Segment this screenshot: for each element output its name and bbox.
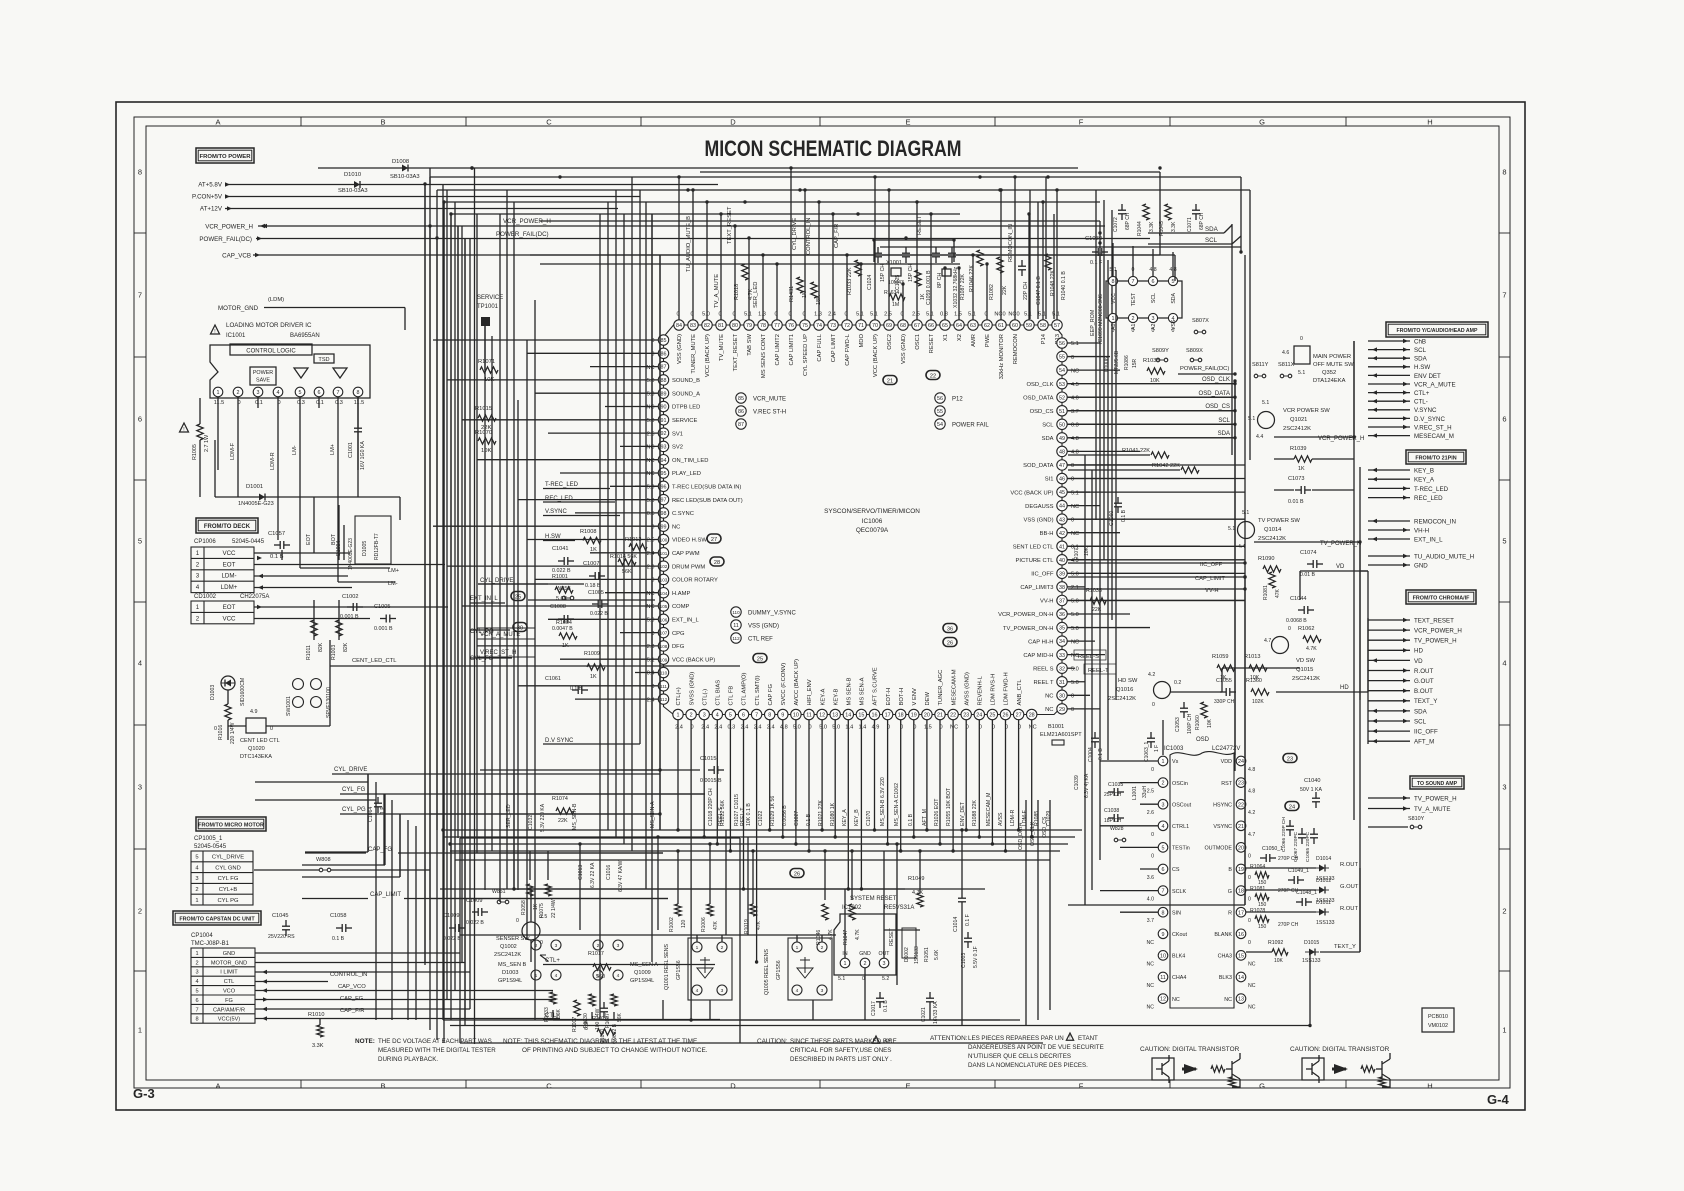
wire drop pin 1: [677, 720, 679, 830]
wire sensor gnd: [553, 1019, 1020, 1021]
resistor R1060v: [1201, 702, 1207, 718]
svg-text:1SS133: 1SS133: [1316, 920, 1335, 926]
opto sensor Q1001: [688, 938, 732, 1000]
capacitor C1064: [374, 802, 382, 804]
svg-text:23: 23: [963, 713, 969, 719]
svg-text:NC: NC: [1071, 368, 1079, 374]
svg-text:4.2: 4.2: [1148, 672, 1155, 678]
svg-text:24: 24: [976, 713, 982, 719]
svg-text:21: 21: [887, 378, 893, 384]
transistor Q1002: [522, 922, 540, 940]
svg-text:6: 6: [1502, 415, 1506, 424]
wire stub pin 98: [575, 512, 658, 514]
svg-text:C1072: C1072: [1113, 217, 1119, 232]
pin 75 CYL SPEED UP: [800, 320, 810, 330]
svg-text:CYL_FG: CYL_FG: [342, 787, 366, 793]
svg-text:1: 1: [1162, 759, 1165, 765]
svg-text:C1039: C1039: [1074, 775, 1080, 790]
wire stub pin 106: [548, 618, 658, 620]
svg-text:13: 13: [832, 713, 838, 719]
svg-text:C1049_1: C1049_1: [1288, 868, 1309, 874]
svg-text:AT+5.8V: AT+5.8V: [198, 182, 223, 189]
svg-text:GP1S94L: GP1S94L: [630, 978, 654, 984]
svg-text:AVCC (BACK UP): AVCC (BACK UP): [794, 659, 800, 706]
svg-text:N'UTILISER QUE CELLS DECRITES: N'UTILISER QUE CELLS DECRITES: [968, 1053, 1071, 1060]
pin 92 SV1: [658, 428, 668, 438]
svg-text:14: 14: [1238, 975, 1244, 981]
svg-text:VSS (GND): VSS (GND): [677, 334, 683, 364]
wire to pin 79: [748, 238, 750, 320]
svg-text:51: 51: [1059, 409, 1065, 415]
svg-text:MS_SEN-B: MS_SEN-B: [572, 803, 578, 830]
svg-text:81: 81: [718, 323, 724, 329]
svg-text:2.5: 2.5: [647, 538, 655, 544]
svg-text:CAP_F/R: CAP_F/R: [834, 224, 840, 248]
svg-text:12: 12: [1160, 997, 1166, 1003]
svg-text:MOTOR_GND: MOTOR_GND: [211, 960, 247, 966]
svg-text:0.5: 0.5: [647, 511, 655, 517]
svg-text:10K: 10K: [1207, 718, 1213, 728]
pin 96 T-REC LED(SUB DATA IN): [658, 481, 668, 491]
svg-text:4: 4: [196, 584, 200, 591]
svg-text:1K: 1K: [562, 643, 569, 649]
connector label FROM/TO Y/C/AUDIO/HEAD AMP: [1386, 322, 1488, 337]
svg-text:13: 13: [1238, 997, 1244, 1003]
svg-text:AFT_M: AFT_M: [922, 809, 928, 826]
pin 11 HIFI_ENV: [804, 709, 814, 719]
svg-text:LDM-R: LDM-R: [270, 452, 276, 470]
svg-text:62: 62: [984, 323, 990, 329]
wire bus bot5: [440, 888, 985, 890]
connector label FROM/TO POWER: [196, 148, 254, 163]
svg-text:1: 1: [1112, 316, 1115, 322]
wire rstub pin 54: [1067, 369, 1120, 371]
svg-text:R1060: R1060: [1195, 715, 1201, 730]
svg-text:LDM-F: LDM-F: [230, 442, 236, 460]
svg-text:5.0: 5.0: [1071, 626, 1079, 632]
svg-text:111: 111: [660, 684, 667, 689]
svg-text:VCC (BACK UP): VCC (BACK UP): [672, 657, 715, 663]
svg-text:LM-: LM-: [292, 445, 298, 455]
wire to pin 75: [804, 190, 806, 320]
pin 106 EXT_IN_L: [658, 614, 668, 624]
svg-text:C1008: C1008: [550, 604, 566, 610]
svg-text:VCC: VCC: [222, 615, 236, 622]
svg-text:VD SW: VD SW: [1296, 658, 1316, 664]
svg-text:1: 1: [138, 1026, 142, 1035]
connector block CHROMA rows: [1368, 619, 1410, 621]
wire rlong y559: [1067, 559, 1245, 561]
pin 16 AFT S.CURVE: [869, 709, 879, 719]
wire drop pin 12: [821, 720, 823, 830]
pin 98 C.SYNC: [658, 508, 668, 518]
svg-text:TAB SW: TAB SW: [747, 333, 753, 355]
wire rstub pin 55: [1067, 356, 1110, 358]
pin 88 SOUND_B: [658, 375, 668, 385]
svg-text:VCO: VCO: [223, 989, 236, 995]
svg-text:5.0: 5.0: [832, 725, 840, 731]
svg-text:GP1S56: GP1S56: [676, 960, 682, 980]
wire LM+: [337, 408, 339, 520]
connector block SOUND rows: [1368, 797, 1410, 799]
wire rstub pin 47: [1067, 464, 1160, 466]
svg-text:C1071: C1071: [1187, 217, 1193, 232]
svg-text:FROM/TO DECK: FROM/TO DECK: [204, 524, 251, 530]
svg-text:W808: W808: [316, 857, 331, 863]
svg-text:54: 54: [937, 422, 943, 428]
pin 80 TEXT_RESET: [730, 320, 740, 330]
svg-text:R.OUT: R.OUT: [1340, 862, 1358, 868]
svg-text:CONTROL_IN: CONTROL_IN: [330, 972, 367, 978]
pin 87 pin: [658, 361, 668, 371]
svg-text:IIC_OFF: IIC_OFF: [1031, 572, 1054, 578]
svg-text:R1360: R1360: [1246, 678, 1262, 684]
svg-text:SERVICE: SERVICE: [672, 418, 697, 424]
svg-text:PLAY_LED: PLAY_LED: [672, 471, 701, 477]
wire left long drop3: [446, 190, 448, 999]
wire to pin 63: [972, 255, 974, 320]
svg-text:OSD_DATA: OSD_DATA: [1199, 391, 1230, 397]
svg-text:SVCC (F.CONV): SVCC (F.CONV): [781, 663, 787, 706]
svg-text:RE5VS31A: RE5VS31A: [884, 905, 914, 911]
svg-text:R1010: R1010: [308, 1012, 324, 1018]
svg-text:2: 2: [821, 945, 824, 951]
svg-text:40: 40: [1059, 558, 1065, 564]
wire vleft x646: [645, 202, 647, 889]
svg-text:77: 77: [774, 323, 780, 329]
svg-text:8: 8: [357, 390, 360, 396]
svg-text:CAP FWD-L: CAP FWD-L: [845, 333, 851, 366]
svg-text:AMR: AMR: [971, 334, 977, 347]
svg-text:63: 63: [970, 323, 976, 329]
pin 40 PICTURE CTL: [1057, 555, 1067, 565]
svg-text:VD: VD: [1414, 658, 1423, 665]
svg-text:5: 5: [1502, 537, 1506, 546]
hex 26 node: [790, 869, 804, 878]
svg-text:26: 26: [1003, 713, 1009, 719]
svg-text:C1045: C1045: [272, 913, 288, 919]
wire stair x416: [415, 826, 417, 1020]
svg-text:HD: HD: [1340, 685, 1349, 691]
svg-text:C1055: C1055: [1216, 678, 1232, 684]
svg-text:2SC2412K: 2SC2412K: [494, 952, 521, 958]
svg-text:C1073: C1073: [1288, 476, 1304, 482]
svg-text:OSD_DATA: OSD_DATA: [1018, 822, 1024, 850]
svg-text:110: 110: [732, 610, 740, 615]
wire text_y rail: [1359, 700, 1361, 952]
node 86 V.REC ST-H: [736, 406, 746, 416]
diode D1005: [355, 516, 391, 564]
svg-text:OSD_CLK: OSD_CLK: [1026, 382, 1053, 388]
svg-text:VSS (GND): VSS (GND): [901, 334, 907, 364]
svg-text:C1013: C1013: [578, 865, 584, 880]
svg-text:0.0015 B: 0.0015 B: [700, 778, 722, 784]
svg-text:1M: 1M: [892, 302, 899, 308]
crystal X1001: [891, 268, 901, 276]
svg-text:D1001: D1001: [246, 484, 263, 490]
pin 6 CTL AMP(O): [738, 709, 748, 719]
pin 91 SERVICE: [658, 415, 668, 425]
pin 73 CAP LIMIT: [828, 320, 838, 330]
wire vrail0: [1234, 381, 1236, 771]
svg-text:VSYNC: VSYNC: [1213, 824, 1232, 830]
svg-text:NC: NC: [1029, 725, 1037, 731]
svg-text:IC1099 M2NC08-9N6: IC1099 M2NC08-9N6: [1098, 294, 1104, 344]
svg-text:NC0: NC0: [1008, 312, 1019, 318]
svg-text:4.7: 4.7: [1248, 832, 1255, 838]
svg-text:R: R: [1228, 910, 1232, 916]
svg-text:58: 58: [1040, 323, 1046, 329]
svg-text:82: 82: [704, 323, 710, 329]
pin 8 CAP FG: [765, 709, 775, 719]
svg-text:CKout: CKout: [1172, 932, 1187, 938]
svg-text:2SC2412K: 2SC2412K: [1108, 696, 1136, 702]
wire vtop x1038: [1037, 202, 1039, 319]
svg-text:VCC (BACK UP): VCC (BACK UP): [873, 334, 879, 377]
svg-text:SAVE: SAVE: [256, 378, 270, 384]
svg-text:3: 3: [257, 390, 260, 396]
svg-text:0: 0: [1172, 328, 1175, 334]
pin 104 H.AMP: [658, 588, 668, 598]
svg-text:2.4: 2.4: [647, 697, 655, 703]
resistor R1045: [1165, 204, 1171, 220]
wire bus top7: [540, 263, 960, 265]
svg-text:31: 31: [1059, 680, 1065, 686]
svg-text:C1040: C1040: [1304, 778, 1320, 784]
svg-text:HD SW: HD SW: [1118, 678, 1138, 684]
svg-text:CS: CS: [1172, 867, 1180, 873]
wire blh0: [480, 769, 660, 771]
svg-text:8: 8: [768, 713, 771, 719]
svg-text:NC: NC: [1045, 694, 1053, 700]
pin 17 EOT-H: [882, 709, 892, 719]
svg-text:16: 16: [872, 713, 878, 719]
svg-text:ChB: ChB: [1414, 338, 1426, 345]
svg-text:30: 30: [1059, 693, 1065, 699]
wire vleft x600: [599, 214, 601, 1020]
svg-text:E: E: [905, 118, 910, 127]
svg-text:0.1 F: 0.1 F: [1090, 260, 1103, 266]
svg-text:5.0: 5.0: [1071, 666, 1079, 672]
svg-text:EOT-H: EOT-H: [886, 688, 892, 706]
svg-text:REEL T: REEL T: [1034, 680, 1054, 686]
svg-text:G-3: G-3: [133, 1086, 155, 1101]
svg-text:POWER FAIL: POWER FAIL: [952, 423, 989, 429]
svg-text:32: 32: [1059, 666, 1065, 672]
svg-text:S809Y: S809Y: [1152, 348, 1169, 354]
wire vbusM2: [534, 300, 536, 1020]
wire stub pin 94: [477, 459, 658, 461]
svg-text:19: 19: [1238, 867, 1244, 873]
svg-text:HD: HD: [1414, 648, 1423, 655]
wire stub pin 104: [605, 592, 658, 594]
wire to pin 60: [1014, 177, 1016, 320]
svg-text:R1055 10K BOT: R1055 10K BOT: [946, 787, 952, 826]
svg-text:NC: NC: [1071, 639, 1079, 645]
svg-text:42: 42: [1059, 531, 1065, 537]
svg-text:20: 20: [924, 713, 930, 719]
wire LDM-R: [277, 408, 279, 540]
svg-text:FROM/TO MICRO MOTOR: FROM/TO MICRO MOTOR: [198, 822, 264, 828]
svg-text:R1058: R1058: [521, 900, 527, 915]
svg-text:R1046 22K: R1046 22K: [969, 265, 975, 292]
wire left long drop1: [476, 214, 478, 853]
svg-text:89: 89: [661, 391, 667, 397]
wire drop pin 17: [887, 720, 889, 844]
wire stub pin 100: [527, 539, 658, 541]
svg-text:0: 0: [1132, 328, 1135, 334]
node 112 CTL REF: [731, 633, 741, 643]
svg-text:21: 21: [937, 713, 943, 719]
svg-text:D1006: D1006: [1104, 357, 1110, 372]
wire to pin 59: [1028, 214, 1030, 320]
svg-text:DANS LA NOMENCLATURE DES PIECE: DANS LA NOMENCLATURE DES PIECES.: [968, 1062, 1088, 1069]
svg-text:92: 92: [661, 431, 667, 437]
svg-text:0.1 B: 0.1 B: [332, 936, 345, 942]
svg-text:X1032 32.768kHz: X1032 32.768kHz: [953, 266, 959, 308]
svg-text:2.1: 2.1: [1071, 585, 1079, 591]
svg-text:R1082: R1082: [989, 284, 995, 300]
svg-text:6: 6: [1152, 279, 1155, 285]
wire rstub pin 56: [1067, 342, 1100, 344]
transistor Q1020: [246, 718, 266, 733]
svg-text:CTL: CTL: [224, 979, 235, 985]
node 24 hex: [1285, 802, 1299, 811]
svg-text:CYL_DRIVE: CYL_DRIVE: [334, 767, 367, 773]
svg-text:LOADING MOTOR DRIVER IC: LOADING MOTOR DRIVER IC: [226, 322, 312, 329]
svg-text:C1050_1: C1050_1: [1262, 846, 1283, 852]
svg-text:4.8: 4.8: [1248, 767, 1255, 773]
svg-text:0.01 B: 0.01 B: [1288, 499, 1304, 505]
svg-text:0.1 B: 0.1 B: [883, 1000, 889, 1012]
capacitor C1069: [1018, 265, 1026, 267]
svg-text:0: 0: [1248, 918, 1251, 924]
pin 105 COMP: [658, 601, 668, 611]
pin 21 TUNER_AGC: [935, 709, 945, 719]
svg-text:2.3: 2.3: [647, 644, 655, 650]
resistor R1044: [1143, 204, 1149, 220]
svg-text:D1015: D1015: [1304, 940, 1319, 946]
wire vrail4: [1095, 190, 1097, 520]
svg-text:8: 8: [1502, 168, 1506, 177]
svg-text:POWER_FAIL(DC): POWER_FAIL(DC): [1180, 366, 1229, 372]
pin 29 NC: [1057, 704, 1067, 714]
svg-text:DTPB LED: DTPB LED: [672, 405, 700, 411]
capacitor C1014: [958, 897, 966, 899]
svg-text:11.5: 11.5: [214, 400, 224, 406]
pin 63 AMR: [968, 320, 978, 330]
svg-text:93: 93: [661, 445, 667, 451]
svg-text:3: 3: [1152, 316, 1155, 322]
svg-text:T-REC LED(SUB DATA IN): T-REC LED(SUB DATA IN): [672, 485, 741, 491]
svg-text:5.1: 5.1: [1242, 510, 1249, 516]
svg-text:0.4: 0.4: [647, 671, 655, 677]
pin 90 DTPB LED: [658, 401, 668, 411]
svg-text:26: 26: [947, 640, 953, 646]
svg-text:C1005: C1005: [374, 604, 390, 610]
pin 86 pin: [658, 348, 668, 358]
svg-text:S807X: S807X: [1192, 318, 1209, 324]
svg-text:D1005: D1005: [362, 541, 368, 556]
svg-text:R1431: R1431: [789, 286, 795, 302]
IC IC1099 EEPROM: [1106, 281, 1182, 318]
svg-text:2.0: 2.0: [647, 564, 655, 570]
svg-text:DFG: DFG: [672, 644, 685, 650]
svg-text:FROM/TO Y/C/AUDIO/HEAD AMP: FROM/TO Y/C/AUDIO/HEAD AMP: [1397, 328, 1478, 334]
resistor R1014: [618, 559, 636, 565]
svg-text:1SS133: 1SS133: [914, 946, 920, 964]
wire vmid x485: [484, 326, 486, 890]
wire capstan rows: [255, 952, 460, 954]
svg-text:C1014: C1014: [953, 917, 959, 932]
svg-text:V.SYNC: V.SYNC: [545, 509, 567, 515]
wire rstub pin 30: [1067, 694, 1090, 696]
node 36: [943, 624, 957, 633]
pin 77 CAP LIMIT2: [772, 320, 782, 330]
svg-text:2.5: 2.5: [647, 431, 655, 437]
svg-text:85: 85: [661, 338, 667, 344]
svg-text:106: 106: [660, 617, 668, 622]
svg-text:2.4: 2.4: [714, 725, 722, 731]
pin 24 REVENH-L: [974, 709, 984, 719]
svg-text:CAP_F/R: CAP_F/R: [340, 1008, 364, 1014]
wire stub pin 99: [433, 525, 658, 527]
connector block 21PIN rows2: [1368, 520, 1410, 522]
svg-text:C1041: C1041: [552, 546, 568, 552]
svg-text:5.0: 5.0: [1071, 599, 1079, 605]
svg-text:SID1600CM: SID1600CM: [240, 678, 246, 706]
svg-text:DANGEREUSES AN POINT DE VUE SE: DANGEREUSES AN POINT DE VUE SECURITE: [968, 1044, 1104, 1051]
svg-text:TUNER_AGC: TUNER_AGC: [938, 670, 944, 706]
svg-text:X1: X1: [943, 334, 949, 341]
svg-text:6.3V 47 KA/W: 6.3V 47 KA/W: [618, 860, 624, 892]
svg-text:CTRL1: CTRL1: [1172, 824, 1189, 830]
wire drop pin 20: [926, 720, 928, 830]
svg-text:43: 43: [1059, 517, 1065, 523]
svg-text:0.001 B: 0.001 B: [340, 614, 359, 620]
svg-text:1.4: 1.4: [845, 725, 853, 731]
svg-text:0: 0: [1152, 328, 1155, 334]
svg-text:SCL: SCL: [1205, 237, 1218, 244]
svg-text:NC: NC: [646, 405, 654, 411]
svg-text:GP1S56: GP1S56: [776, 960, 782, 980]
wire deck rows: [254, 552, 350, 554]
wire vbus L1: [436, 190, 438, 830]
wire drop pin 6: [743, 720, 745, 889]
wire osdstub 2: [1140, 803, 1158, 805]
svg-text:NC: NC: [646, 604, 654, 610]
wire LDM-F: [237, 408, 239, 497]
svg-text:CENT LED CTL: CENT LED CTL: [240, 738, 280, 744]
wire vrail2: [1353, 341, 1355, 820]
svg-text:16: 16: [1238, 932, 1244, 938]
svg-text:94: 94: [661, 458, 667, 464]
resistor R1030: [589, 994, 595, 1006]
svg-text:35: 35: [1059, 626, 1065, 632]
svg-text:MEASURED WITH THE DIGITAL TEST: MEASURED WITH THE DIGITAL TESTER: [378, 1047, 496, 1054]
capacitor C1066: [1286, 825, 1294, 827]
svg-text:29: 29: [1059, 707, 1065, 713]
svg-text:1: 1: [196, 550, 200, 557]
svg-text:R1004: R1004: [556, 620, 572, 626]
opto sensor Q1005: [788, 938, 832, 1000]
connector CP1005_1 table: [191, 851, 253, 905]
wire rstub pin 32: [1067, 667, 1075, 669]
svg-text:5.1: 5.1: [1038, 312, 1046, 318]
svg-text:COMP: COMP: [672, 604, 690, 610]
svg-text:VSS (GND): VSS (GND): [748, 624, 779, 630]
svg-text:4: 4: [1162, 824, 1165, 830]
